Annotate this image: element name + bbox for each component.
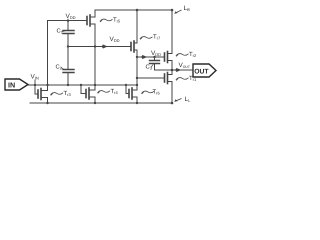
wire vertical input riser x47.5	[47, 21, 49, 86]
transistor Tr2	[165, 52, 173, 63]
label L_L with leader	[175, 99, 182, 102]
leader tick C2	[61, 68, 65, 70]
label Tr7 with squiggle	[140, 34, 162, 41]
svg-text:LL: LL	[185, 96, 192, 103]
wire top rail L_B from Tr5 drain corner to right corner	[95, 9, 172, 11]
svg-text:C2: C2	[56, 64, 63, 71]
transistor Tr1	[165, 73, 173, 84]
arrowhead on Tr2 gate wire	[142, 55, 147, 58]
junction node C2 bottom	[67, 84, 69, 86]
svg-text:VDD: VDD	[110, 36, 120, 43]
wire Tr2 drain vertical x172	[171, 10, 173, 54]
junction node rail corner L_B	[171, 9, 174, 12]
junction node rail end L_L	[171, 102, 174, 105]
svg-text:Tr3: Tr3	[64, 90, 72, 97]
capacitor C1 plates	[63, 31, 74, 34]
junction node wire y57 start	[136, 56, 138, 58]
svg-text:LB: LB	[184, 5, 191, 12]
svg-text:Tr5: Tr5	[113, 17, 121, 24]
tick V_IN to wire	[34, 80, 36, 86]
wire Tr1 drain vertical	[171, 70, 173, 75]
svg-text:VIN: VIN	[31, 74, 39, 81]
transistor Tr6	[126, 85, 137, 103]
svg-text:Tr4: Tr4	[111, 88, 119, 95]
junction node C3 top	[153, 56, 155, 58]
label Tr3 with squiggle	[50, 90, 72, 97]
label Tr6 with squiggle	[141, 89, 161, 96]
svg-text:Tr6: Tr6	[153, 89, 161, 96]
junction node Tr6 gate	[125, 84, 127, 86]
junction node C1 bottom on node-A	[67, 45, 69, 47]
junction node Tr4 drain	[94, 84, 96, 86]
junction node Tr6 drain	[136, 84, 138, 86]
junction node Tr7 drain on rail	[136, 9, 139, 12]
capacitor C2 plates	[63, 70, 74, 73]
capacitor C3 plates	[150, 61, 160, 64]
junction node Vout	[171, 69, 174, 72]
svg-text:C3: C3	[146, 64, 153, 71]
wire Tr5 gate wire	[48, 20, 88, 22]
label Tr2 with squiggle	[176, 51, 198, 58]
svg-text:VDD: VDD	[151, 50, 161, 57]
capacitor C3 leads	[154, 57, 156, 70]
IN box	[5, 79, 28, 90]
capacitor C1 leads	[67, 21, 69, 47]
label Tr5 with squiggle	[100, 17, 122, 24]
junction node C1 top / V-label tick	[67, 20, 69, 22]
transistor Tr4	[81, 85, 95, 103]
leader tick C1	[62, 30, 65, 33]
wire Tr1 source vertical	[171, 82, 173, 104]
wire bottom rail L_L y103	[30, 102, 172, 104]
arrowhead on Vout wire	[176, 68, 181, 71]
label Tr4 with squiggle	[97, 88, 119, 95]
transistor Tr5	[87, 10, 95, 26]
svg-text:C1: C1	[57, 28, 64, 35]
junction node riser meets input wire	[46, 84, 48, 86]
junction node Vin label tick	[34, 84, 36, 86]
tick V_DD to wire	[67, 19, 69, 21]
svg-text:IN: IN	[8, 80, 15, 89]
wire Tr2 gate wire y57	[137, 56, 165, 58]
wire Tr7 source vertical x137	[136, 50, 138, 85]
junction node Tr3 source on rail	[46, 102, 48, 104]
label L_B with leader	[175, 10, 182, 14]
junction node Tr1 gate branch	[136, 77, 138, 79]
junction node Tr4 gate	[80, 84, 82, 86]
junction node Tr6 source on rail	[136, 102, 138, 104]
transistor Tr7	[131, 41, 137, 52]
wire node-A horizontal y46.5	[68, 46, 131, 48]
svg-text:OUT: OUT	[194, 68, 209, 75]
wire Tr2 source vertical to Vout node	[171, 61, 173, 71]
OUT box	[193, 64, 216, 77]
wire Tr1 gate wire y78	[137, 77, 165, 79]
svg-text:Tr7: Tr7	[153, 34, 161, 41]
arrowhead on node-A wire	[102, 45, 107, 48]
svg-text:VDD: VDD	[66, 13, 76, 20]
junction node Tr4 source on rail	[94, 102, 96, 104]
wire Tr7 drain vertical to rail	[136, 10, 138, 43]
wire Tr5 source vertical x95	[94, 24, 96, 85]
svg-text:Tr2: Tr2	[189, 51, 197, 58]
leader tick C3	[151, 64, 153, 67]
label Tr1 with squiggle	[176, 75, 198, 82]
capacitor C2 leads	[67, 47, 69, 86]
wire Vout horizontal y70 from C3 bottom to OUT box	[155, 69, 194, 71]
transistor Tr3	[35, 85, 48, 103]
wire input horizontal y85	[28, 84, 137, 86]
svg-text:Tr1: Tr1	[189, 75, 197, 82]
junction node Tr5 source on node-A	[94, 45, 96, 47]
